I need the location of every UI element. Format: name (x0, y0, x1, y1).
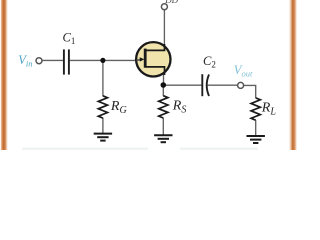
resistor RG zigzag (98, 96, 107, 118)
terminal: VDD supply open circle (161, 4, 167, 10)
wire: C2 right plate to Vout terminal (208, 84, 238, 86)
svg-text:DD: DD (164, 0, 178, 5)
wire: node B down to RS (162, 85, 164, 96)
wire: C1 right plate to gate of Q1 (through node A) (70, 59, 137, 61)
node B junction dot (source node) (161, 82, 167, 88)
ground symbol below RL (247, 136, 265, 143)
ground symbol below RS (154, 135, 172, 142)
transistor Q1 source internal lead (146, 67, 165, 75)
node A junction dot (gate node) (100, 58, 105, 63)
left orange frame border (1, 0, 9, 150)
resistor RL zigzag (251, 98, 260, 120)
resistor RS zigzag (159, 96, 168, 118)
wire: VDD terminal down to drain (163, 10, 165, 46)
terminal: Vout output open circle (238, 82, 244, 88)
capacitor C2 curved plate (207, 75, 209, 97)
right orange frame border (289, 0, 297, 150)
ground symbol below RG (94, 134, 112, 141)
capacitor C1 plates (63, 49, 65, 74)
wire: RG bottom to ground (102, 118, 104, 134)
capacitor C2 straight plate (201, 74, 203, 96)
wire: node B to C2 left plate (163, 84, 202, 86)
wire: source of Q1 down to node B (163, 73, 165, 85)
transistor Q1 drain internal lead (146, 44, 165, 50)
svg-text:RL: RL (261, 100, 277, 117)
transistor Q1 gate bar (144, 49, 147, 68)
faint cut-off caption remnant left (22, 148, 148, 150)
faint cut-off caption remnant right (180, 148, 258, 150)
wire: RS bottom to ground (162, 118, 164, 135)
svg-text:C2: C2 (203, 54, 216, 70)
wire: RL bottom to ground (255, 120, 257, 136)
terminal: Vin input open circle (36, 58, 42, 64)
svg-text:C1: C1 (63, 31, 76, 47)
transistor Q1 JFET circle body (136, 42, 170, 76)
wire: node A down to RG (102, 60, 104, 96)
transistor Q1 gate lead with arrowhead (n-channel) (136, 59, 142, 62)
svg-text:RS: RS (172, 99, 187, 116)
svg-text:Vin: Vin (18, 53, 32, 68)
wire: Vout terminal to RL top (244, 85, 256, 98)
svg-text:Vout: Vout (234, 63, 253, 78)
wire: Vin terminal to C1 left plate (42, 59, 63, 61)
svg-text:RG: RG (110, 99, 127, 116)
